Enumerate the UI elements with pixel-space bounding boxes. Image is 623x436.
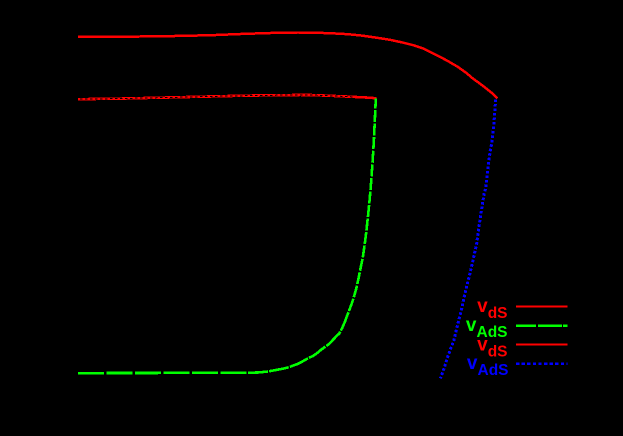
curve v_dS case1 mottled texture overlay [80,95,355,99]
legend line v_dS case1 (red solid) [516,305,568,307]
curve v_AdS case1 (green dashed) steep segment [349,98,376,310]
curve v_AdS case2 (blue dotted) [440,100,495,379]
legend line v_dS case2 (red solid) [516,344,568,346]
curve v_AdS case1 (green dashed) bend segment [248,310,349,373]
legend line v_AdS case2 (blue dotted) [516,363,568,365]
curve v_dS case1 (lower red solid) [78,95,377,99]
legend line v_AdS case1 (green dashed) [516,325,568,327]
curve v_dS case2 (top red solid) [78,33,498,99]
curve v_AdS case1 (green dashed) flat segment [78,371,248,374]
